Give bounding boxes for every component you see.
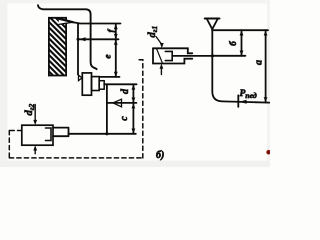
svg-text:c: c	[119, 116, 130, 121]
svg-text:б: б	[228, 41, 238, 46]
svg-text:пед: пед	[245, 91, 257, 100]
svg-text:a: a	[254, 60, 265, 65]
svg-text:б): б)	[156, 150, 164, 161]
